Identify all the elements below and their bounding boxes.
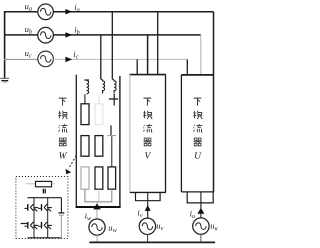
svg-text:iu: iu xyxy=(190,208,196,220)
wire branch a to join bus xyxy=(111,189,113,202)
label converter U (vertical text) xyxy=(193,98,202,162)
wire branch b inductor to submodule (faint) xyxy=(98,95,100,104)
detail: IGBT Q1 xyxy=(24,204,38,211)
detail: IGBT Q4 xyxy=(38,222,52,229)
current arrow iw xyxy=(93,203,101,209)
node branch a grey bar xyxy=(108,135,117,137)
svg-text:uc: uc xyxy=(25,48,32,60)
detail: ac terminal stub xyxy=(21,223,28,225)
voltage source uv xyxy=(139,218,155,234)
wire W output xyxy=(96,202,98,219)
svg-text:uw: uw xyxy=(108,222,117,234)
wire uu to neutral bus xyxy=(200,234,202,242)
voltage source ub xyxy=(38,27,54,43)
wire drop phase c to converter U xyxy=(186,59,188,75)
detail: H-bridge top rail xyxy=(28,197,62,199)
current arrow ia xyxy=(65,9,72,14)
wire branch b to join bus xyxy=(98,189,100,202)
wire phase c from source to converters (grey) xyxy=(53,58,187,60)
voltage source uc xyxy=(38,51,54,67)
wire branch a bar to submodule xyxy=(111,136,113,167)
svg-text:ub: ub xyxy=(25,24,32,36)
join bracket node of converter V xyxy=(135,192,161,200)
wire drop phase c to converter V xyxy=(136,59,138,75)
submodule SM row3 branch a xyxy=(108,167,116,189)
wire branch c inductor to submodule xyxy=(84,94,86,104)
detail: branch inductor L xyxy=(36,181,52,186)
left source bus vertical wire xyxy=(4,11,6,79)
wire drop phase b to converter W branch xyxy=(100,35,102,79)
label converter V (vertical text) xyxy=(143,98,152,161)
detail: H-bridge bottom rail xyxy=(28,237,62,239)
detail: capacitor C plates xyxy=(43,189,46,194)
current arrow ic xyxy=(65,57,72,62)
neutral bus wire xyxy=(89,241,215,243)
wire drop phase b to converter V xyxy=(147,35,149,75)
svg-text:V: V xyxy=(144,151,151,161)
label converter W (vertical text) xyxy=(58,98,67,162)
wire drop phase b to converter U (grey) xyxy=(200,35,202,75)
wire branch a series stub xyxy=(110,125,112,135)
detail: wire right of inductor xyxy=(52,183,56,185)
wire uv to neutral bus xyxy=(147,235,149,243)
svg-text:iw: iw xyxy=(85,210,92,222)
converter U box xyxy=(181,75,214,192)
wire drop phase a to converter U (right edge) xyxy=(213,12,215,75)
wire drop phase a to converter W branch xyxy=(111,12,113,80)
detail: left leg wire xyxy=(33,198,35,238)
inductor Lb (branch b of W) xyxy=(101,79,105,93)
svg-text:uv: uv xyxy=(156,221,163,233)
join bus node of converter W xyxy=(84,201,112,203)
join bracket node of converter U xyxy=(187,192,214,203)
submodule SM row1 branch b (faint) xyxy=(95,104,103,125)
voltage source uw xyxy=(89,219,105,235)
wire phase a from source to converters xyxy=(53,11,213,13)
svg-text:ic: ic xyxy=(73,49,78,61)
node branch a tee terminal xyxy=(109,94,118,106)
current arrow iu xyxy=(197,208,204,214)
converter V box xyxy=(130,75,166,193)
ground xyxy=(0,78,9,82)
wire uw to neutral bus xyxy=(96,235,98,242)
inductor Lc (branch c of W) xyxy=(84,80,89,94)
detail: IGBT Q3 xyxy=(24,222,38,229)
svg-text:ib: ib xyxy=(74,24,80,36)
submodule SM row3 branch b xyxy=(95,167,103,189)
current arrow ib xyxy=(65,32,72,37)
detail: wire left of inductor xyxy=(26,183,36,185)
wire phase a from bus to source ua xyxy=(4,11,38,13)
submodule SM row2 branch c xyxy=(81,136,89,157)
svg-text:uu: uu xyxy=(210,221,217,233)
wire phase b from bus to source ub xyxy=(4,34,38,36)
svg-text:U: U xyxy=(194,152,202,162)
wire V output xyxy=(147,192,149,218)
voltage source uu xyxy=(193,218,209,234)
voltage source ua xyxy=(38,4,54,20)
submodule detail dashed box xyxy=(16,177,68,239)
inductor La (branch a of W) xyxy=(112,79,116,93)
submodule SM row2 branch b xyxy=(95,136,103,157)
svg-text:iv: iv xyxy=(137,208,142,220)
svg-text:W: W xyxy=(59,152,68,162)
detail: right leg wire xyxy=(47,198,49,238)
wire phase c from bus to source uc xyxy=(4,58,38,60)
current arrow iv xyxy=(145,205,151,211)
wire U output xyxy=(200,192,202,218)
wire phase b from source to converters xyxy=(53,34,200,36)
callout dashed arrow to submodule detail xyxy=(65,155,76,174)
wire branch c to join bus xyxy=(84,189,86,202)
submodule SM row1 branch c xyxy=(81,104,89,125)
detail: IGBT Q2 xyxy=(38,204,52,211)
wire drop phase a to converter V xyxy=(157,12,159,75)
submodule SM row3 branch c (grey) xyxy=(81,167,89,189)
svg-text:ia: ia xyxy=(74,2,80,14)
detail: dc capacitor branch xyxy=(58,198,64,238)
svg-text:ua: ua xyxy=(25,1,32,13)
converter W box (open top) xyxy=(76,75,121,208)
